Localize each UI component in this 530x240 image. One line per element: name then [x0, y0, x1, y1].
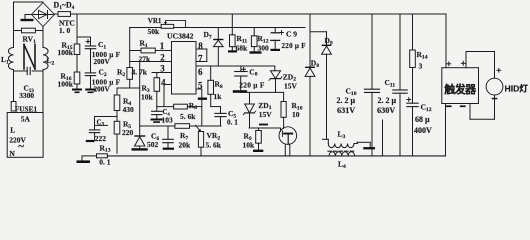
svg-text:10: 10: [292, 110, 300, 119]
svg-text:0. 1: 0. 1: [99, 158, 111, 167]
svg-text:68k: 68k: [236, 44, 249, 53]
svg-text:6: 6: [198, 67, 203, 77]
svg-text:3300: 3300: [19, 91, 34, 100]
svg-text:100k: 100k: [58, 79, 74, 88]
svg-text:C 9: C 9: [286, 30, 297, 39]
svg-text:UC3842: UC3842: [167, 31, 194, 40]
svg-text:630V: 630V: [377, 106, 395, 115]
svg-text:300: 300: [258, 44, 270, 53]
svg-text:5A: 5A: [21, 115, 31, 124]
svg-text:10k: 10k: [141, 93, 154, 102]
svg-text:220 μ F: 220 μ F: [282, 42, 306, 50]
svg-text:5. 6k: 5. 6k: [180, 112, 196, 121]
svg-text:15V: 15V: [284, 81, 298, 90]
svg-text:10k: 10k: [243, 140, 256, 149]
svg-text:触发器: 触发器: [443, 82, 477, 96]
svg-text:VR1: VR1: [148, 17, 162, 25]
svg-text:50k: 50k: [148, 27, 161, 36]
svg-text:68 μ: 68 μ: [415, 115, 430, 124]
svg-text:631V: 631V: [337, 106, 355, 115]
svg-text:D1~D4: D1~D4: [54, 1, 75, 11]
svg-text:~: ~: [18, 141, 24, 153]
svg-text:2: 2: [160, 53, 165, 63]
svg-text:5. 6k: 5. 6k: [206, 141, 222, 150]
svg-text:103: 103: [162, 115, 174, 124]
svg-text:20k: 20k: [179, 141, 192, 150]
svg-text:100k: 100k: [58, 48, 74, 57]
svg-text:2. 2 μ: 2. 2 μ: [337, 96, 356, 105]
svg-text:220: 220: [122, 128, 134, 137]
svg-text:15V: 15V: [259, 110, 273, 119]
svg-text:200V: 200V: [94, 85, 111, 94]
svg-text:222: 222: [95, 134, 107, 143]
svg-text:0. 1: 0. 1: [227, 119, 238, 127]
svg-text:430: 430: [123, 105, 135, 114]
svg-text:502: 502: [147, 140, 159, 149]
svg-text:1. 0: 1. 0: [59, 26, 71, 35]
svg-text:220 μ F: 220 μ F: [239, 80, 265, 89]
svg-text:1k: 1k: [214, 92, 223, 101]
svg-text:N: N: [9, 149, 15, 158]
svg-text:400V: 400V: [414, 126, 432, 135]
svg-text:27k: 27k: [139, 55, 152, 64]
svg-text:L: L: [10, 125, 15, 134]
svg-text:2. 2 μ: 2. 2 μ: [378, 96, 397, 105]
svg-text:3: 3: [419, 62, 423, 71]
svg-text:1: 1: [160, 41, 165, 51]
svg-text:HID灯: HID灯: [505, 83, 529, 94]
svg-text:200V: 200V: [94, 57, 111, 66]
